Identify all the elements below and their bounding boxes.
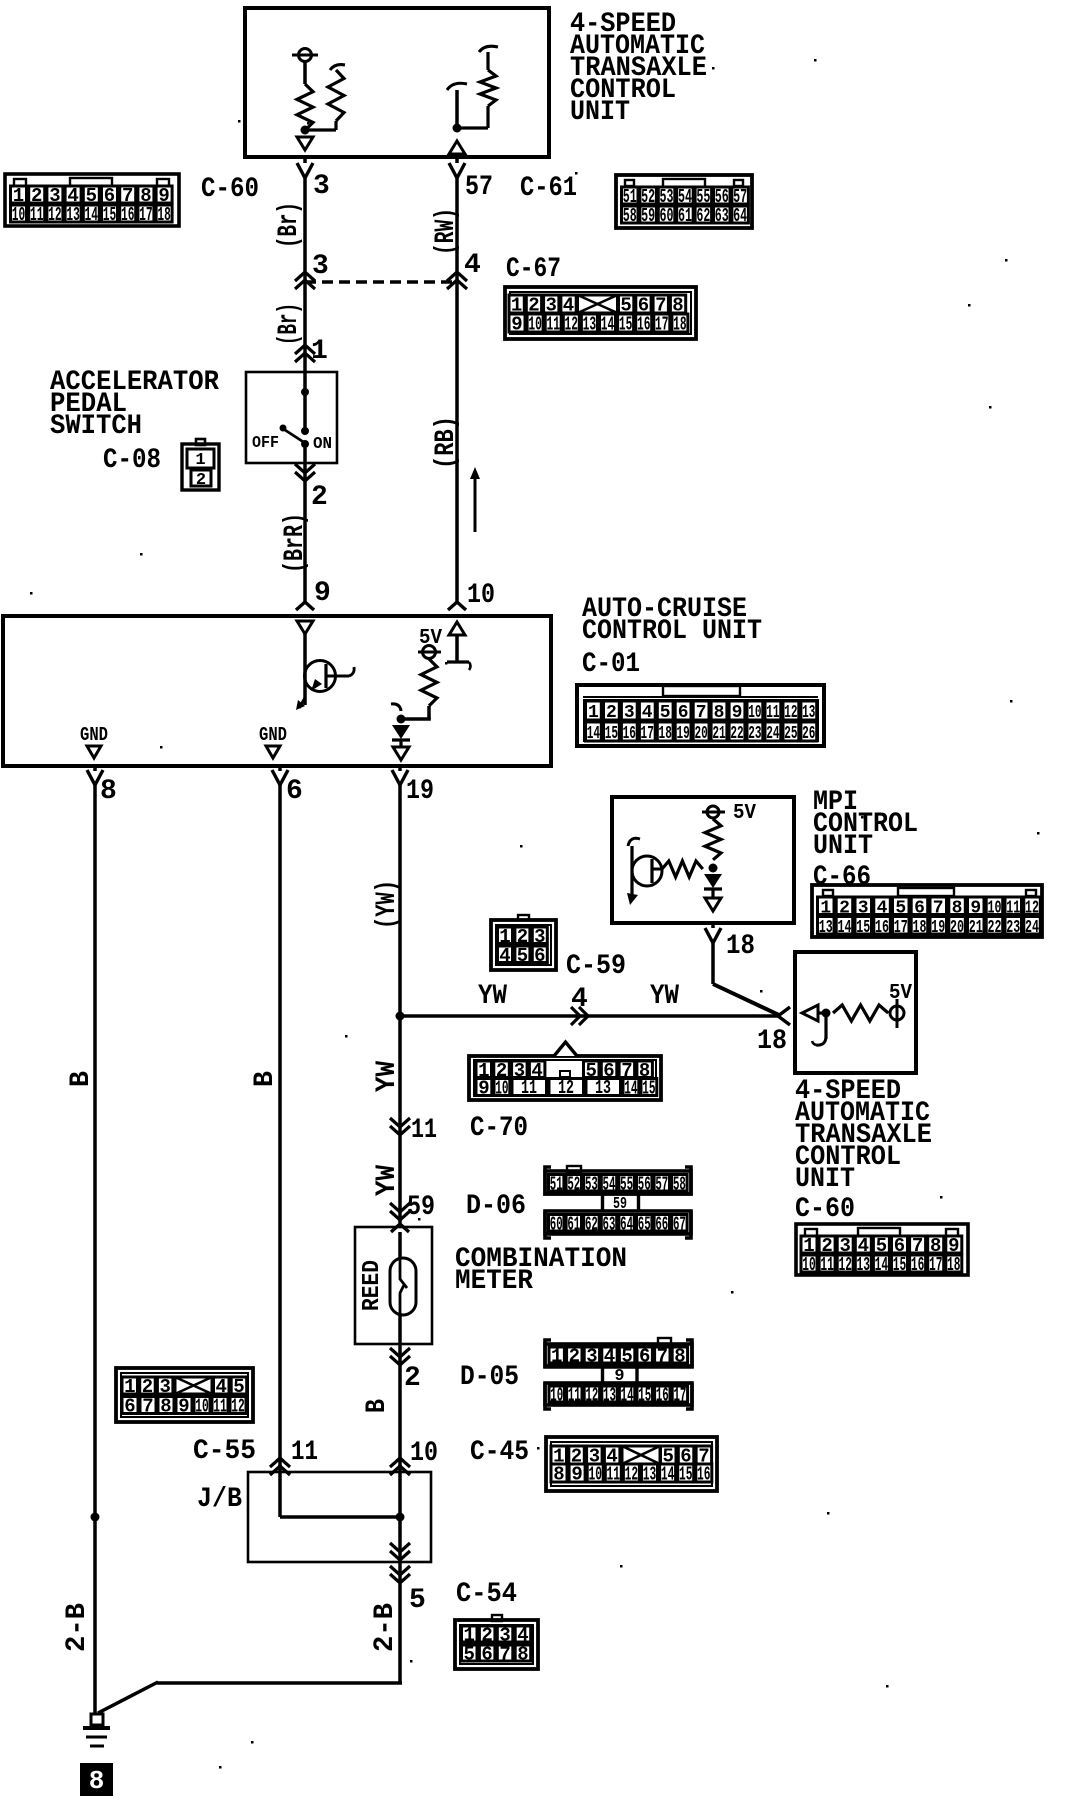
svg-text:11: 11: [766, 703, 779, 723]
svg-text:4: 4: [604, 1346, 615, 1368]
svg-text:15: 15: [638, 1385, 651, 1407]
joint chevron pin 1 (pedal switch): [295, 345, 315, 362]
svg-text:2-B: 2-B: [370, 1603, 401, 1652]
connector C-01 face: [577, 685, 824, 746]
svg-text:59: 59: [407, 1192, 435, 1223]
svg-text:11: 11: [546, 314, 560, 336]
current direction arrow (RB wire): [470, 467, 480, 532]
svg-text:GND: GND: [80, 724, 108, 746]
svg-text:B: B: [250, 1071, 281, 1087]
transistor (auto-cruise): [305, 661, 355, 692]
page reference 8: [80, 1763, 113, 1796]
resistor (right box): [833, 1005, 888, 1021]
junction dot (J/B): [396, 1513, 405, 1522]
svg-text:4: 4: [571, 984, 588, 1015]
svg-text:22: 22: [730, 724, 743, 744]
svg-text:(RW): (RW): [431, 208, 462, 255]
svg-text:16: 16: [656, 1385, 669, 1407]
svg-text:D-05: D-05: [460, 1362, 519, 1393]
MPI control unit box: [612, 797, 794, 923]
svg-text:11: 11: [568, 1385, 581, 1407]
junction dot (YW tap): [396, 1012, 405, 1021]
svg-text:10: 10: [748, 703, 761, 723]
label ACCELERATOR PEDAL SWITCH: [50, 367, 219, 442]
svg-text:C-61: C-61: [520, 173, 577, 204]
connector symbol pin 6: [272, 770, 288, 785]
svg-text:6: 6: [124, 1396, 135, 1418]
svg-text:B: B: [66, 1071, 97, 1087]
svg-text:14: 14: [621, 1385, 634, 1407]
open triangle pin 19 inside box: [393, 747, 409, 760]
svg-text:54: 54: [603, 1173, 616, 1195]
connector symbol pin 8: [87, 770, 103, 785]
svg-text:7: 7: [696, 703, 707, 723]
open triangle up (pin 57 inside box): [449, 141, 465, 154]
svg-text:17: 17: [655, 314, 669, 336]
svg-text:18: 18: [659, 724, 672, 744]
svg-text:18: 18: [157, 204, 171, 226]
joint chevron pin 2 (below pedal switch): [295, 464, 315, 481]
hook (top box right branch): [447, 83, 467, 90]
svg-text:14: 14: [587, 724, 600, 744]
svg-text:20: 20: [694, 724, 707, 744]
connector symbol pin 57 (C-61): [449, 163, 465, 178]
svg-text:C-55: C-55: [193, 1436, 256, 1467]
svg-text:10: 10: [550, 1385, 563, 1407]
label AUTO-CRUISE CONTROL UNIT: [582, 594, 762, 647]
svg-text:16: 16: [911, 1254, 925, 1276]
wire through J/B down: [398, 1475, 402, 1683]
svg-text:52: 52: [567, 1173, 580, 1195]
svg-text:12: 12: [585, 1385, 598, 1407]
svg-text:5V: 5V: [889, 982, 912, 1005]
svg-text:2-B: 2-B: [62, 1603, 93, 1652]
svg-text:63: 63: [603, 1213, 616, 1235]
open triangle pin 18 inside MPI box: [705, 898, 721, 911]
svg-text:C-01: C-01: [582, 649, 640, 680]
svg-text:17: 17: [641, 724, 654, 744]
svg-text:60: 60: [550, 1213, 563, 1235]
svg-text:10: 10: [528, 314, 542, 336]
svg-text:5: 5: [517, 945, 528, 967]
wire to transistor: [303, 632, 307, 705]
joint chevron 11 into J/B: [270, 1458, 290, 1475]
connector C-45 face: [546, 1437, 717, 1491]
svg-text:15: 15: [893, 1254, 907, 1276]
connector C-67 face: [505, 287, 696, 339]
svg-text:15: 15: [619, 314, 633, 336]
connector symbol pin 18 (MPI): [705, 928, 721, 943]
svg-text:B: B: [362, 1399, 393, 1413]
wire: [303, 444, 307, 463]
resistor (top box left): [297, 84, 313, 130]
connector C-66 face: [812, 885, 1042, 938]
svg-text:1: 1: [311, 336, 328, 367]
svg-text:5: 5: [409, 1585, 426, 1616]
wire: [303, 392, 307, 430]
wire: [303, 61, 307, 84]
svg-text:12: 12: [48, 204, 62, 226]
wire end female (pin 18 right): [778, 1007, 790, 1025]
svg-text:4: 4: [642, 703, 653, 723]
svg-text:9: 9: [314, 578, 331, 609]
open triangle pin 9 inside box: [297, 621, 313, 634]
svg-text:(Br): (Br): [274, 303, 305, 345]
transistor (MPI): [627, 838, 662, 905]
switch contact lower: [301, 440, 309, 448]
open triangle down (pin 3 inside box): [297, 137, 313, 150]
svg-text:13: 13: [603, 1385, 616, 1407]
wire (YW) vertical: [398, 766, 402, 771]
svg-text:YW: YW: [372, 1165, 403, 1196]
svg-text:9: 9: [732, 703, 743, 723]
joint chevron 4 (C-59): [571, 1007, 588, 1025]
svg-text:REED: REED: [359, 1260, 386, 1311]
svg-text:57: 57: [465, 172, 493, 203]
svg-text:11: 11: [607, 1464, 621, 1486]
svg-text:C-60: C-60: [201, 174, 259, 205]
wire with T-bar (pin 10 stub): [447, 635, 471, 670]
svg-text:55: 55: [620, 1173, 633, 1195]
label: 4-SPEED AUTOMATIC TRANSAXLE CONTROL UNIT (top): [570, 9, 707, 128]
svg-text:62: 62: [585, 1213, 598, 1235]
svg-text:4: 4: [499, 945, 510, 967]
svg-text:10: 10: [467, 580, 495, 611]
wire (RW) pin57 down: [455, 157, 459, 163]
svg-text:21: 21: [712, 724, 725, 744]
svg-text:58: 58: [673, 1173, 686, 1195]
svg-text:8: 8: [674, 1346, 685, 1368]
connector C-61 face: [616, 175, 752, 228]
svg-text:14: 14: [875, 1254, 889, 1276]
svg-text:15: 15: [103, 204, 117, 226]
wire end at combination meter: [391, 1224, 409, 1232]
input arrow pin 18 (inside right box): [802, 1005, 818, 1021]
svg-text:11: 11: [820, 1254, 834, 1276]
junction dot (right box): [822, 1009, 831, 1018]
svg-text:(Br): (Br): [274, 202, 305, 248]
joint chevron pin 5 (C-54): [390, 1566, 410, 1583]
connector C-60 face (top left): [5, 174, 179, 226]
svg-text:10: 10: [12, 204, 26, 226]
svg-text:8: 8: [100, 776, 117, 807]
svg-text:ON: ON: [313, 435, 332, 454]
connector symbol pin 19: [392, 770, 408, 785]
connector C-08 face (pins 1-2): [182, 439, 219, 490]
5V supply circle (right box): [890, 999, 904, 1028]
svg-text:59: 59: [641, 205, 655, 227]
wire from MPI pin 18 diagonal: [711, 923, 715, 928]
wire inside J/B: [278, 1475, 282, 1517]
svg-text:12: 12: [838, 1254, 852, 1276]
svg-text:10: 10: [495, 1078, 508, 1100]
junction dot (MPI): [709, 864, 718, 873]
wire (BrR): [303, 463, 307, 602]
svg-text:C-66: C-66: [813, 862, 871, 893]
svg-text:8: 8: [714, 703, 725, 723]
svg-text:7: 7: [657, 1346, 668, 1368]
svg-text:23: 23: [748, 724, 761, 744]
svg-text:12: 12: [231, 1396, 245, 1418]
joint chevron pin 4 (dashed): [447, 272, 467, 289]
svg-text:18: 18: [673, 314, 687, 336]
svg-text:2: 2: [311, 482, 328, 513]
svg-text:14: 14: [85, 204, 99, 226]
svg-text:2: 2: [404, 1363, 421, 1394]
svg-text:C-08: C-08: [103, 445, 161, 476]
svg-text:56: 56: [638, 1173, 651, 1195]
connector C-55 face: [116, 1368, 253, 1422]
joint chevron pin 2 (D-05): [390, 1344, 410, 1475]
svg-text:60: 60: [660, 205, 674, 227]
svg-text:YW: YW: [372, 1061, 403, 1092]
svg-text:8: 8: [517, 1644, 528, 1666]
connector C-59 face: [491, 915, 556, 970]
junction (top box left): [301, 126, 310, 135]
svg-text:21: 21: [969, 918, 983, 938]
wire into reed: [398, 1232, 402, 1258]
svg-text:17: 17: [673, 1385, 686, 1407]
open triangle pin 10 inside box: [449, 622, 465, 635]
svg-text:3: 3: [313, 171, 330, 202]
svg-text:6: 6: [286, 776, 303, 807]
5V supply circle (auto-cruise): [418, 646, 441, 659]
svg-text:5V: 5V: [733, 802, 756, 825]
svg-text:D-06: D-06: [466, 1191, 526, 1222]
svg-text:64: 64: [733, 205, 747, 227]
wire elbow to diode: [427, 706, 431, 719]
emitter end arrow: [296, 698, 305, 710]
svg-text:23: 23: [1006, 918, 1020, 938]
svg-text:C-54: C-54: [456, 1579, 517, 1610]
svg-text:10: 10: [802, 1254, 816, 1276]
svg-text:YW: YW: [650, 981, 679, 1012]
svg-text:UNIT: UNIT: [570, 97, 630, 128]
connector symbol pin 3 (C-60): [297, 163, 313, 178]
svg-text:8: 8: [160, 1396, 171, 1418]
svg-text:13: 13: [643, 1464, 657, 1486]
pin 9 wire end: [296, 602, 314, 610]
label MPI CONTROL UNIT: [813, 787, 918, 862]
stub with hook (right box): [812, 1013, 826, 1045]
svg-text:16: 16: [637, 314, 651, 336]
svg-text:10: 10: [588, 1464, 602, 1486]
svg-text:15: 15: [679, 1464, 693, 1486]
svg-text:13: 13: [583, 314, 597, 336]
svg-text:8: 8: [89, 1766, 105, 1796]
svg-text:GND: GND: [259, 724, 287, 746]
svg-text:(YW): (YW): [372, 880, 403, 929]
wire B (middle): [278, 766, 282, 771]
svg-text:6: 6: [678, 703, 689, 723]
svg-text:3: 3: [624, 703, 635, 723]
svg-text:24: 24: [766, 724, 779, 744]
svg-text:16: 16: [121, 204, 135, 226]
svg-text:17: 17: [139, 204, 153, 226]
wire B (left ground wire): [93, 766, 97, 771]
accelerator pedal switch box: [246, 372, 337, 463]
resistor (auto-cruise pull-up): [421, 659, 437, 706]
4-speed automatic transaxle control unit box (top): [245, 8, 549, 157]
svg-text:9: 9: [511, 314, 522, 336]
svg-text:57: 57: [655, 1173, 668, 1195]
junction block J/B box: [248, 1472, 431, 1562]
reed contacts: [400, 1258, 407, 1313]
svg-text:63: 63: [715, 205, 729, 227]
wire: [818, 1011, 826, 1014]
svg-text:18: 18: [947, 1254, 961, 1276]
svg-text:15: 15: [856, 918, 870, 938]
svg-text:C-70: C-70: [470, 1113, 528, 1144]
svg-text:6: 6: [639, 1346, 650, 1368]
svg-text:61: 61: [567, 1213, 580, 1235]
reed switch capsule: [390, 1258, 416, 1315]
svg-text:5: 5: [621, 1346, 632, 1368]
svg-text:9: 9: [571, 1464, 582, 1486]
svg-text:UNIT: UNIT: [813, 831, 873, 862]
sensor circle (top box, pin 3 branch): [292, 49, 318, 62]
resistor (top box right) with hook: [457, 46, 498, 128]
connector D-05 face: [545, 1338, 692, 1409]
connector D-06 face: [545, 1166, 691, 1238]
label 4-SPEED AUTOMATIC TRANSAXLE CONTROL UNIT (right): [795, 1076, 932, 1195]
svg-text:12: 12: [558, 1077, 574, 1099]
svg-text:METER: METER: [455, 1266, 533, 1297]
svg-text:UNIT: UNIT: [795, 1164, 855, 1195]
svg-text:53: 53: [585, 1173, 598, 1195]
svg-text:14: 14: [661, 1464, 675, 1486]
svg-text:65: 65: [638, 1213, 651, 1235]
svg-text:14: 14: [624, 1078, 637, 1100]
svg-text:15: 15: [605, 724, 618, 744]
svg-text:19: 19: [931, 918, 945, 938]
connector C-54 face: [455, 1615, 538, 1669]
svg-text:26: 26: [802, 724, 815, 744]
svg-text:61: 61: [678, 205, 692, 227]
svg-text:(BrR): (BrR): [280, 513, 311, 573]
svg-text:4: 4: [464, 250, 481, 281]
joint chevron pin 11 (C-70): [390, 1118, 410, 1135]
svg-text:6: 6: [534, 945, 545, 967]
svg-text:1: 1: [195, 451, 205, 470]
svg-text:12: 12: [784, 703, 797, 723]
auto-cruise control unit box: [3, 616, 551, 766]
svg-text:SWITCH: SWITCH: [50, 411, 142, 442]
svg-text:14: 14: [601, 314, 615, 336]
svg-text:3: 3: [586, 1346, 597, 1368]
svg-text:11: 11: [30, 204, 44, 226]
switch blade (OFF position): [280, 425, 306, 444]
svg-text:8: 8: [553, 1464, 564, 1486]
svg-text:22: 22: [988, 918, 1002, 938]
4-speed ATX control unit box (right): [795, 952, 916, 1073]
svg-text:24: 24: [1025, 918, 1039, 938]
diode (MPI): [704, 874, 722, 897]
svg-text:66: 66: [655, 1213, 668, 1235]
svg-text:C-59: C-59: [566, 951, 626, 982]
junction dot on left B wire: [91, 1513, 100, 1522]
switch contact upper: [301, 427, 309, 435]
svg-text:13: 13: [819, 918, 833, 938]
hook at diode junction: [391, 704, 401, 711]
svg-text:CONTROL UNIT: CONTROL UNIT: [582, 616, 762, 647]
svg-text:3: 3: [312, 251, 329, 282]
ground triangle left (pin 8): [87, 746, 101, 758]
svg-text:OFF: OFF: [252, 434, 279, 453]
wire YW horizontal: [400, 1014, 778, 1018]
label COMBINATION METER: [455, 1244, 627, 1297]
svg-text:10: 10: [195, 1396, 209, 1418]
svg-text:25: 25: [784, 724, 797, 744]
svg-text:12: 12: [625, 1464, 639, 1486]
svg-text:2: 2: [606, 703, 617, 723]
svg-text:J/B: J/B: [197, 1484, 242, 1515]
svg-text:16: 16: [697, 1464, 711, 1486]
svg-text:C-45: C-45: [470, 1437, 529, 1468]
ground triangle middle (pin 6): [266, 746, 280, 758]
svg-text:18: 18: [913, 918, 927, 938]
ground terminal square: [91, 1714, 103, 1725]
pin 10 wire end: [448, 602, 466, 610]
svg-text:11: 11: [213, 1396, 227, 1418]
joint chevron at J/B exit: [390, 1543, 410, 1560]
joint chevron pin 3 (dashed): [295, 272, 315, 289]
svg-text:20: 20: [950, 918, 964, 938]
svg-text:11: 11: [521, 1077, 537, 1099]
svg-text:15: 15: [642, 1078, 655, 1100]
junction dot (diode): [397, 715, 406, 724]
svg-text:51: 51: [550, 1173, 563, 1195]
svg-text:13: 13: [66, 204, 80, 226]
svg-text:1: 1: [588, 703, 599, 723]
svg-text:7: 7: [499, 1644, 510, 1666]
5V supply circle (MPI): [702, 806, 725, 818]
svg-text:2: 2: [196, 471, 206, 490]
svg-text:C-60: C-60: [795, 1194, 855, 1225]
svg-text:5: 5: [660, 703, 671, 723]
svg-text:19: 19: [406, 776, 434, 807]
resistor (top box left, parallel) with hook: [305, 65, 345, 130]
junction (switch input): [301, 388, 309, 396]
wire out of reed: [398, 1313, 402, 1344]
diode (auto-cruise): [392, 725, 410, 746]
svg-text:5: 5: [463, 1644, 474, 1666]
svg-text:18: 18: [726, 931, 755, 962]
combination meter REED box: [355, 1227, 432, 1344]
svg-text:7: 7: [142, 1396, 153, 1418]
svg-text:13: 13: [857, 1254, 871, 1276]
svg-text:17: 17: [929, 1254, 943, 1276]
svg-text:16: 16: [623, 724, 636, 744]
junction (top box right): [453, 124, 462, 133]
svg-text:17: 17: [894, 918, 908, 938]
svg-text:62: 62: [696, 205, 710, 227]
resistor (MPI base): [662, 861, 703, 877]
joint chevron 10 into J/B: [390, 1458, 410, 1475]
svg-text:67: 67: [673, 1213, 686, 1235]
svg-text:13: 13: [802, 703, 815, 723]
wire: [455, 90, 459, 128]
svg-text:9: 9: [478, 1078, 489, 1100]
svg-text:13: 13: [595, 1077, 611, 1099]
svg-text:2: 2: [569, 1346, 580, 1368]
resistor (MPI pull-up): [705, 819, 721, 860]
joint chevron pin 59 (D-06): [390, 1203, 410, 1220]
svg-text:11: 11: [291, 1437, 318, 1468]
connector C-60 face (bottom right): [796, 1224, 968, 1276]
svg-text:(RB): (RB): [431, 416, 462, 469]
svg-text:10: 10: [410, 1438, 438, 1469]
